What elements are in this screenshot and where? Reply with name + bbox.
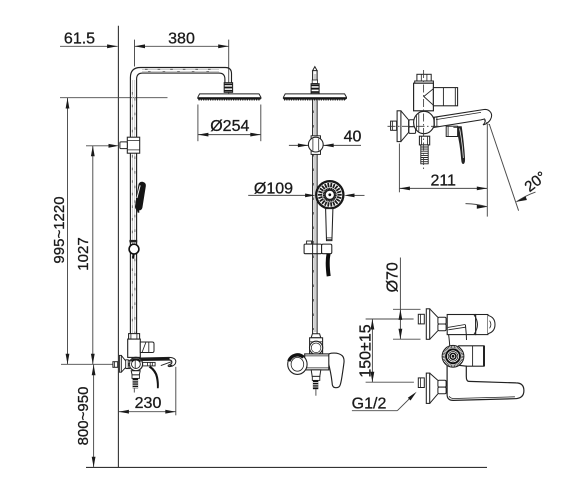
svg-text:Ø109: Ø109 bbox=[254, 181, 293, 198]
svg-text:380: 380 bbox=[168, 31, 195, 48]
svg-text:1027: 1027 bbox=[75, 237, 92, 270]
svg-text:211: 211 bbox=[430, 172, 456, 189]
svg-text:150±15: 150±15 bbox=[358, 324, 375, 377]
svg-text:230: 230 bbox=[135, 395, 162, 412]
svg-text:G1/2: G1/2 bbox=[352, 396, 387, 413]
svg-text:40: 40 bbox=[344, 129, 362, 146]
svg-text:995~1220: 995~1220 bbox=[51, 196, 68, 263]
svg-text:61.5: 61.5 bbox=[64, 31, 95, 48]
svg-text:800~950: 800~950 bbox=[75, 387, 92, 446]
svg-text:Ø254: Ø254 bbox=[210, 118, 249, 135]
svg-text:Ø70: Ø70 bbox=[384, 262, 401, 292]
